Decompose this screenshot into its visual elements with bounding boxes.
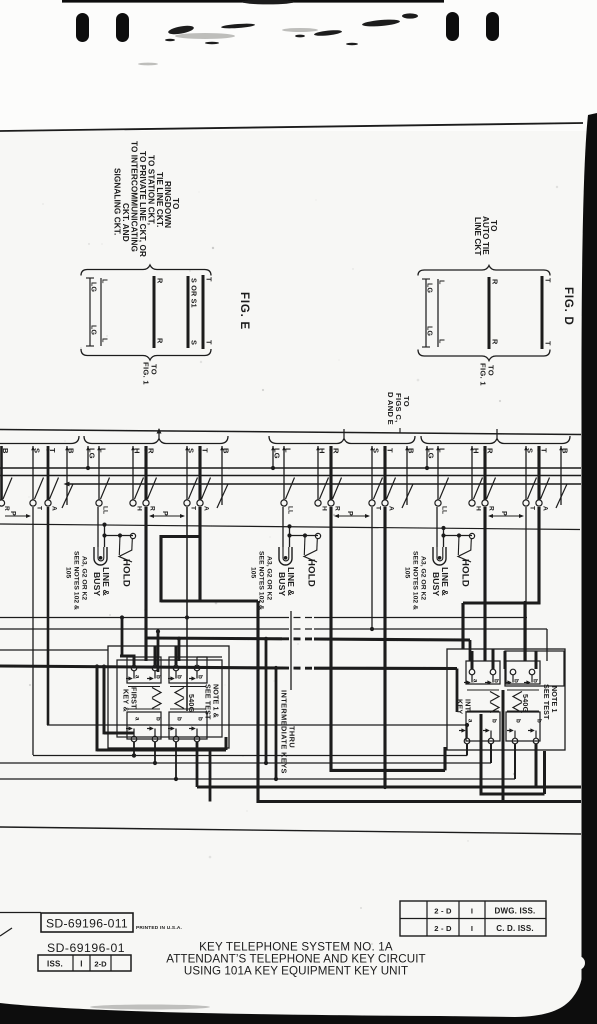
svg-text:L: L <box>438 448 447 453</box>
svg-text:T: T <box>205 277 214 282</box>
line group 1 line-busy lamp <box>94 547 107 565</box>
svg-text:T: T <box>544 341 553 346</box>
line group 3 hold chevron <box>458 550 471 562</box>
svg-text:L: L <box>101 279 108 284</box>
int key lower drops <box>466 725 468 738</box>
svg-text:b: b <box>493 679 500 683</box>
wire T1 bend heavy <box>161 599 258 602</box>
fig E terminal S <box>187 276 190 348</box>
line group 1 contact LL <box>96 500 102 506</box>
line group 1 wire H <box>132 446 134 500</box>
svg-text:R: R <box>491 339 500 345</box>
wire h763 <box>0 762 491 764</box>
first key upper-right contact box <box>169 657 207 683</box>
svg-text:SEE TEST: SEE TEST <box>542 684 551 720</box>
int key heavy mid drop <box>502 690 505 802</box>
svg-text:LG: LG <box>426 283 433 293</box>
fig D terminal LG <box>425 279 427 347</box>
svg-text:H: H <box>133 448 142 454</box>
svg-text:B: B <box>67 448 76 454</box>
line group 2 P arrow <box>335 515 369 517</box>
fig D top bracket <box>418 266 550 276</box>
int key contact x491 lower <box>488 738 494 744</box>
svg-text:KEY &: KEY & <box>122 689 131 712</box>
svg-text:S: S <box>190 340 199 345</box>
svg-text:SIGNALING CKT.: SIGNALING CKT. <box>113 168 122 235</box>
brace group C <box>269 436 415 444</box>
wire H2 y629 <box>0 628 282 630</box>
svg-text:SEE NOTES 102 &: SEE NOTES 102 & <box>73 551 80 610</box>
svg-text:S: S <box>33 448 42 453</box>
group 0 wire T <box>47 446 50 500</box>
group 0 wire R stub <box>0 446 3 500</box>
svg-text:b: b <box>515 719 522 723</box>
int key contact x536 lower <box>533 738 539 744</box>
svg-text:S OR S1: S OR S1 <box>190 278 199 308</box>
line group 3 wire S <box>525 446 527 500</box>
svg-text:R: R <box>149 506 156 511</box>
wire H650 <box>0 649 108 651</box>
first key contact x197 lower <box>194 736 200 742</box>
line group 3 line-busy lamp <box>433 547 446 565</box>
int key stub v457 heavy <box>456 669 459 713</box>
int key heavy under-loop <box>480 714 483 796</box>
svg-text:105: 105 <box>404 567 411 579</box>
brace nub tick 3 <box>496 429 498 438</box>
svg-text:S: S <box>187 448 196 453</box>
svg-text:L: L <box>101 338 108 343</box>
iss cells <box>38 955 131 971</box>
line group 1 hold chevron <box>119 550 132 562</box>
line group 3 contact H <box>469 500 475 506</box>
first key rails <box>128 686 160 688</box>
group 0 P arrow <box>5 515 30 517</box>
fig D terminal L <box>437 279 439 347</box>
bus wire 3 with arrow <box>67 483 581 485</box>
svg-text:105: 105 <box>250 567 257 579</box>
brace nub tick 2 <box>343 429 345 438</box>
line group 3 wire LG <box>426 446 428 468</box>
svg-text:P: P <box>161 511 168 516</box>
wire v547 <box>546 629 548 661</box>
svg-text:B: B <box>222 448 231 454</box>
bus wire 4 <box>0 524 580 530</box>
wire v525 heavy <box>523 603 526 661</box>
svg-text:LL: LL <box>287 506 294 514</box>
line group 1 hold contact circle <box>130 533 135 538</box>
svg-text:R: R <box>332 448 341 454</box>
section divider line <box>0 827 581 834</box>
svg-text:DWG. ISS.: DWG. ISS. <box>495 907 536 916</box>
svg-text:R: R <box>147 448 156 454</box>
line group 2 wire R <box>329 446 332 500</box>
line group 1 contact H <box>130 500 136 506</box>
svg-text:I: I <box>80 960 82 969</box>
svg-text:INTERMEDIATE KEYS: INTERMEDIATE KEYS <box>280 690 289 774</box>
line group 3 wire H <box>471 446 473 500</box>
svg-text:a: a <box>472 679 479 683</box>
line group 3 contact B break <box>556 484 567 508</box>
svg-text:ISS.: ISS. <box>47 960 63 969</box>
svg-text:B: B <box>561 448 570 454</box>
first key outer loop heavy <box>96 667 99 752</box>
binder hole 1 <box>76 13 89 42</box>
fig E connector text <box>113 141 181 257</box>
wire R2 drop heavy <box>329 507 332 772</box>
line group 1 wire B <box>221 446 223 505</box>
paper speckles <box>28 186 558 945</box>
svg-text:SD-69196-01: SD-69196-01 <box>47 941 125 955</box>
wire H4 y667 heavy <box>0 666 282 668</box>
fig E top bracket <box>81 265 211 276</box>
scanner black bar right edge <box>581 113 597 986</box>
first key lower drops <box>133 742 135 756</box>
int key outer box <box>447 649 565 750</box>
svg-text:NOTE 1 &: NOTE 1 & <box>212 684 221 718</box>
svg-text:T: T <box>544 278 553 283</box>
svg-text:LINE CKT: LINE CKT <box>473 217 482 256</box>
line group 2 wire H <box>317 446 319 500</box>
fig D bottom bracket <box>418 350 550 361</box>
int key contact x467 lower <box>464 738 470 744</box>
first key lower-left contact box <box>127 712 161 739</box>
svg-text:b: b <box>155 675 162 679</box>
line group 1 contact A <box>197 500 203 506</box>
line group 1 lamp leads <box>97 507 99 547</box>
int key upper-left contact box <box>466 661 500 684</box>
svg-text:FIG. E: FIG. E <box>238 292 250 330</box>
svg-text:HOLD: HOLD <box>460 559 471 587</box>
svg-text:T: T <box>529 506 536 510</box>
int key upper-right contact box <box>506 661 540 684</box>
svg-text:PRINTED IN U.S.A.: PRINTED IN U.S.A. <box>136 925 182 931</box>
svg-text:2 - D: 2 - D <box>434 907 452 916</box>
line group 2 hold contact circle <box>315 533 320 538</box>
svg-text:R: R <box>491 279 500 285</box>
svg-text:b: b <box>536 719 543 723</box>
first key upper-left contact box <box>127 657 161 683</box>
svg-text:P: P <box>500 511 507 516</box>
svg-text:SEE TEST: SEE TEST <box>204 684 213 720</box>
first key contact x176 lower <box>173 736 179 742</box>
svg-text:b: b <box>197 717 204 721</box>
wire R1 drop heavy <box>144 507 147 661</box>
int key envelope box <box>505 651 564 686</box>
bus wire 1 <box>0 467 581 469</box>
line group 1 P arrow <box>150 515 184 517</box>
svg-text:LG: LG <box>90 325 97 335</box>
brace nub tick 1 <box>158 429 160 438</box>
group 0 wire T drop <box>47 507 50 725</box>
line group 2 contact LL <box>281 500 287 506</box>
svg-text:I: I <box>471 907 473 916</box>
svg-text:T: T <box>201 448 210 453</box>
group 0 contact T <box>30 500 36 506</box>
svg-text:S: S <box>526 448 535 453</box>
line group 3 P arrow <box>489 515 523 517</box>
brace group B <box>84 436 228 444</box>
line group 1 wire T <box>198 446 201 500</box>
svg-text:D AND E: D AND E <box>386 392 395 425</box>
int key contact x515 lower <box>512 738 518 744</box>
svg-text:P: P <box>9 511 16 516</box>
svg-text:a: a <box>134 675 141 679</box>
svg-text:B: B <box>407 448 416 454</box>
wire T1 drop heavy <box>198 507 201 602</box>
svg-text:LG: LG <box>273 448 282 459</box>
int key contact x493 upper <box>490 669 496 675</box>
int key risers heavy <box>471 651 474 669</box>
svg-text:b: b <box>532 679 539 683</box>
line group 2 contact A <box>382 500 388 506</box>
fig D terminal R <box>488 277 491 349</box>
svg-text:LL: LL <box>102 506 109 514</box>
line group 1 wire S <box>186 446 188 500</box>
wire v266 heavy <box>265 639 268 763</box>
first key contact x176 upper <box>173 665 179 671</box>
svg-text:T: T <box>386 448 395 453</box>
wire T2 exit heavy <box>197 785 581 788</box>
fig E bottom bracket <box>81 349 211 360</box>
svg-text:T: T <box>205 340 214 345</box>
svg-text:R: R <box>156 338 165 344</box>
line group 3 contact LL <box>435 500 441 506</box>
crease mark <box>0 928 12 936</box>
line group 1 contact T <box>184 500 190 506</box>
svg-text:A: A <box>388 506 395 511</box>
first key left loop heavy <box>103 667 106 735</box>
svg-text:T: T <box>190 506 197 510</box>
svg-text:T: T <box>375 506 382 510</box>
wire H1 y618 <box>0 617 282 619</box>
fig E terminal L <box>100 278 102 346</box>
wire v470 heavy <box>469 640 472 661</box>
line group 2 hold chevron <box>304 550 317 562</box>
svg-text:540G: 540G <box>521 694 530 713</box>
wire H3 y639 heavy <box>146 636 282 640</box>
svg-text:HOLD: HOLD <box>121 559 132 587</box>
wire R2 lower run heavy <box>330 769 445 772</box>
svg-text:BUSY: BUSY <box>92 572 102 596</box>
line group 1 wire R <box>144 446 147 500</box>
svg-text:A: A <box>51 506 58 511</box>
svg-text:H: H <box>321 506 328 511</box>
scan mark top edge line <box>62 0 444 3</box>
svg-text:S: S <box>372 448 381 453</box>
svg-text:b: b <box>176 717 183 721</box>
wire h779 <box>0 778 515 780</box>
svg-text:SD-69196-011: SD-69196-011 <box>46 917 128 931</box>
wire v276 heavy <box>275 668 278 779</box>
first key chevrons <box>152 688 161 698</box>
svg-text:A: A <box>203 506 210 511</box>
group 0 wire B <box>66 446 68 505</box>
svg-text:b: b <box>491 719 498 723</box>
line group 3 contact R <box>482 500 488 506</box>
svg-text:FIG. 1: FIG. 1 <box>142 362 151 385</box>
int key lower-right contact box <box>506 712 540 741</box>
first key contact x155 lower <box>152 736 158 742</box>
wire T3 drop heavy <box>537 507 540 604</box>
line group 1 contact R <box>143 500 149 506</box>
svg-text:b: b <box>155 717 162 721</box>
first key contact x197 upper <box>194 665 200 671</box>
svg-text:2-D: 2-D <box>94 960 107 969</box>
int key chevrons <box>490 692 499 702</box>
svg-text:A3, G2 OR K2: A3, G2 OR K2 <box>81 556 88 600</box>
svg-text:BUSY: BUSY <box>431 572 441 596</box>
int key contact x532 upper <box>529 669 535 675</box>
line group 2 wire LG <box>272 446 274 468</box>
svg-text:A3, G2 OR K2: A3, G2 OR K2 <box>420 556 427 600</box>
title sd number box <box>0 912 41 914</box>
svg-text:NOTE 1: NOTE 1 <box>550 686 559 713</box>
wire T3 bend heavy <box>463 601 540 604</box>
svg-text:H: H <box>136 506 143 511</box>
line group 2 contact T <box>369 500 375 506</box>
binder hole 4 <box>486 12 499 41</box>
int key contact x513 upper <box>510 669 516 675</box>
svg-text:L: L <box>438 339 445 344</box>
int key lower-left contact box <box>466 712 500 741</box>
svg-text:HOLD: HOLD <box>306 559 317 587</box>
svg-text:2 - D: 2 - D <box>434 924 452 933</box>
svg-text:LL: LL <box>441 506 448 514</box>
svg-text:L: L <box>284 448 293 453</box>
svg-text:L: L <box>438 280 445 285</box>
line group 2 wire T <box>383 446 386 500</box>
svg-text:A3, G2 OR K2: A3, G2 OR K2 <box>266 556 273 600</box>
svg-text:USING 101A KEY EQUIPMENT K: USING 101A KEY EQUIPMENT KEY UNIT <box>184 965 408 978</box>
svg-text:B: B <box>1 448 10 454</box>
fig D terminal T <box>541 276 544 349</box>
wire R3 drop heavy <box>483 507 486 661</box>
line group 3 wire R <box>483 446 486 500</box>
svg-text:R: R <box>3 506 10 511</box>
first key outer box <box>108 646 229 748</box>
svg-text:C. D. ISS.: C. D. ISS. <box>496 924 534 933</box>
bus wire 2 <box>0 475 581 477</box>
int key rails <box>467 689 499 691</box>
wire T2 drop heavy <box>383 507 386 787</box>
line group 2 line-busy lamp <box>279 547 292 565</box>
svg-text:FIG. 1: FIG. 1 <box>479 363 488 386</box>
svg-text:T: T <box>48 448 57 453</box>
line group 3 wire T <box>537 446 540 500</box>
svg-text:I: I <box>471 924 473 933</box>
svg-text:H: H <box>475 506 482 511</box>
line group 1 contact B break <box>217 484 228 508</box>
svg-text:105: 105 <box>65 567 72 579</box>
binder hole 2 <box>116 13 129 42</box>
svg-text:LG: LG <box>90 282 97 292</box>
svg-text:b: b <box>197 675 204 679</box>
svg-text:b: b <box>513 679 520 683</box>
svg-text:LG: LG <box>427 448 436 459</box>
svg-text:T: T <box>540 448 549 453</box>
group 0 wire S drop <box>32 507 34 755</box>
ink smudges <box>165 0 418 45</box>
svg-text:H: H <box>472 448 481 454</box>
svg-text:LG: LG <box>426 326 433 336</box>
first key contact x155 upper <box>152 665 158 671</box>
wire v179 heavy <box>178 639 181 661</box>
line group 3 wire B <box>560 446 562 505</box>
svg-text:A: A <box>542 506 549 511</box>
intermediate keys leader <box>290 611 292 690</box>
line group 2 lamp leads <box>282 507 284 547</box>
line group 2 wire L <box>283 446 285 500</box>
group 0 wire S <box>32 446 34 500</box>
wire T1 exit heavy <box>258 800 581 803</box>
line group 3 contact T <box>523 500 529 506</box>
svg-text:a: a <box>467 719 474 723</box>
line group 3 hold contact circle <box>469 533 474 538</box>
svg-text:BUSY: BUSY <box>277 572 287 596</box>
line group 2 contact H <box>315 500 321 506</box>
line group 2 wire B <box>406 446 408 505</box>
line group 1 wire L <box>98 446 100 500</box>
svg-text:H: H <box>318 448 327 454</box>
fig E terminal LG <box>89 278 91 346</box>
first key contact x134 lower <box>131 736 137 742</box>
wire S3 drop <box>525 507 527 661</box>
line group 2 contact R <box>328 500 334 506</box>
first key lower-right contact box <box>169 712 207 739</box>
brace group A <box>0 436 79 444</box>
first key inner box <box>117 660 222 737</box>
fig E terminal T <box>202 275 205 349</box>
svg-text:T: T <box>36 506 43 510</box>
svg-text:R: R <box>486 448 495 454</box>
line group 2 wire S <box>371 446 373 500</box>
svg-text:R: R <box>334 506 341 511</box>
issue table <box>400 901 546 936</box>
group 0 contact A <box>45 500 51 506</box>
line group 1 wire LG <box>87 446 89 468</box>
wire h725 <box>47 724 467 726</box>
group 0 contact B break <box>62 484 73 508</box>
scanner black bottom band <box>0 960 597 1024</box>
first key contact x134 upper <box>131 665 137 671</box>
main header wire <box>0 430 581 435</box>
fig D connector text <box>473 216 498 256</box>
wire S2 drop <box>371 507 373 629</box>
wire v158 heavy <box>157 632 160 673</box>
svg-text:R: R <box>488 506 495 511</box>
svg-text:b: b <box>176 675 183 679</box>
fig E terminal R <box>153 276 156 348</box>
brace group D <box>421 436 570 444</box>
svg-text:R: R <box>156 278 165 284</box>
line group 2 contact B break <box>402 484 413 508</box>
svg-text:LG: LG <box>88 448 97 459</box>
wire S1 drop <box>186 507 188 711</box>
binder hole 3 <box>446 12 459 41</box>
page rule line <box>0 123 583 131</box>
svg-text:SEE NOTES 102 &: SEE NOTES 102 & <box>412 551 419 610</box>
first key risers heavy <box>133 656 136 665</box>
wire T1 detour loop heavy <box>161 535 200 538</box>
svg-text:540G: 540G <box>187 694 196 713</box>
svg-text:a: a <box>134 717 141 721</box>
line group 3 lamp leads <box>436 507 438 547</box>
svg-text:P: P <box>346 511 353 516</box>
svg-text:FIG. D: FIG. D <box>562 287 574 326</box>
line group 3 contact A <box>536 500 542 506</box>
svg-text:L: L <box>99 448 108 453</box>
int key contact x472 upper <box>469 669 475 675</box>
